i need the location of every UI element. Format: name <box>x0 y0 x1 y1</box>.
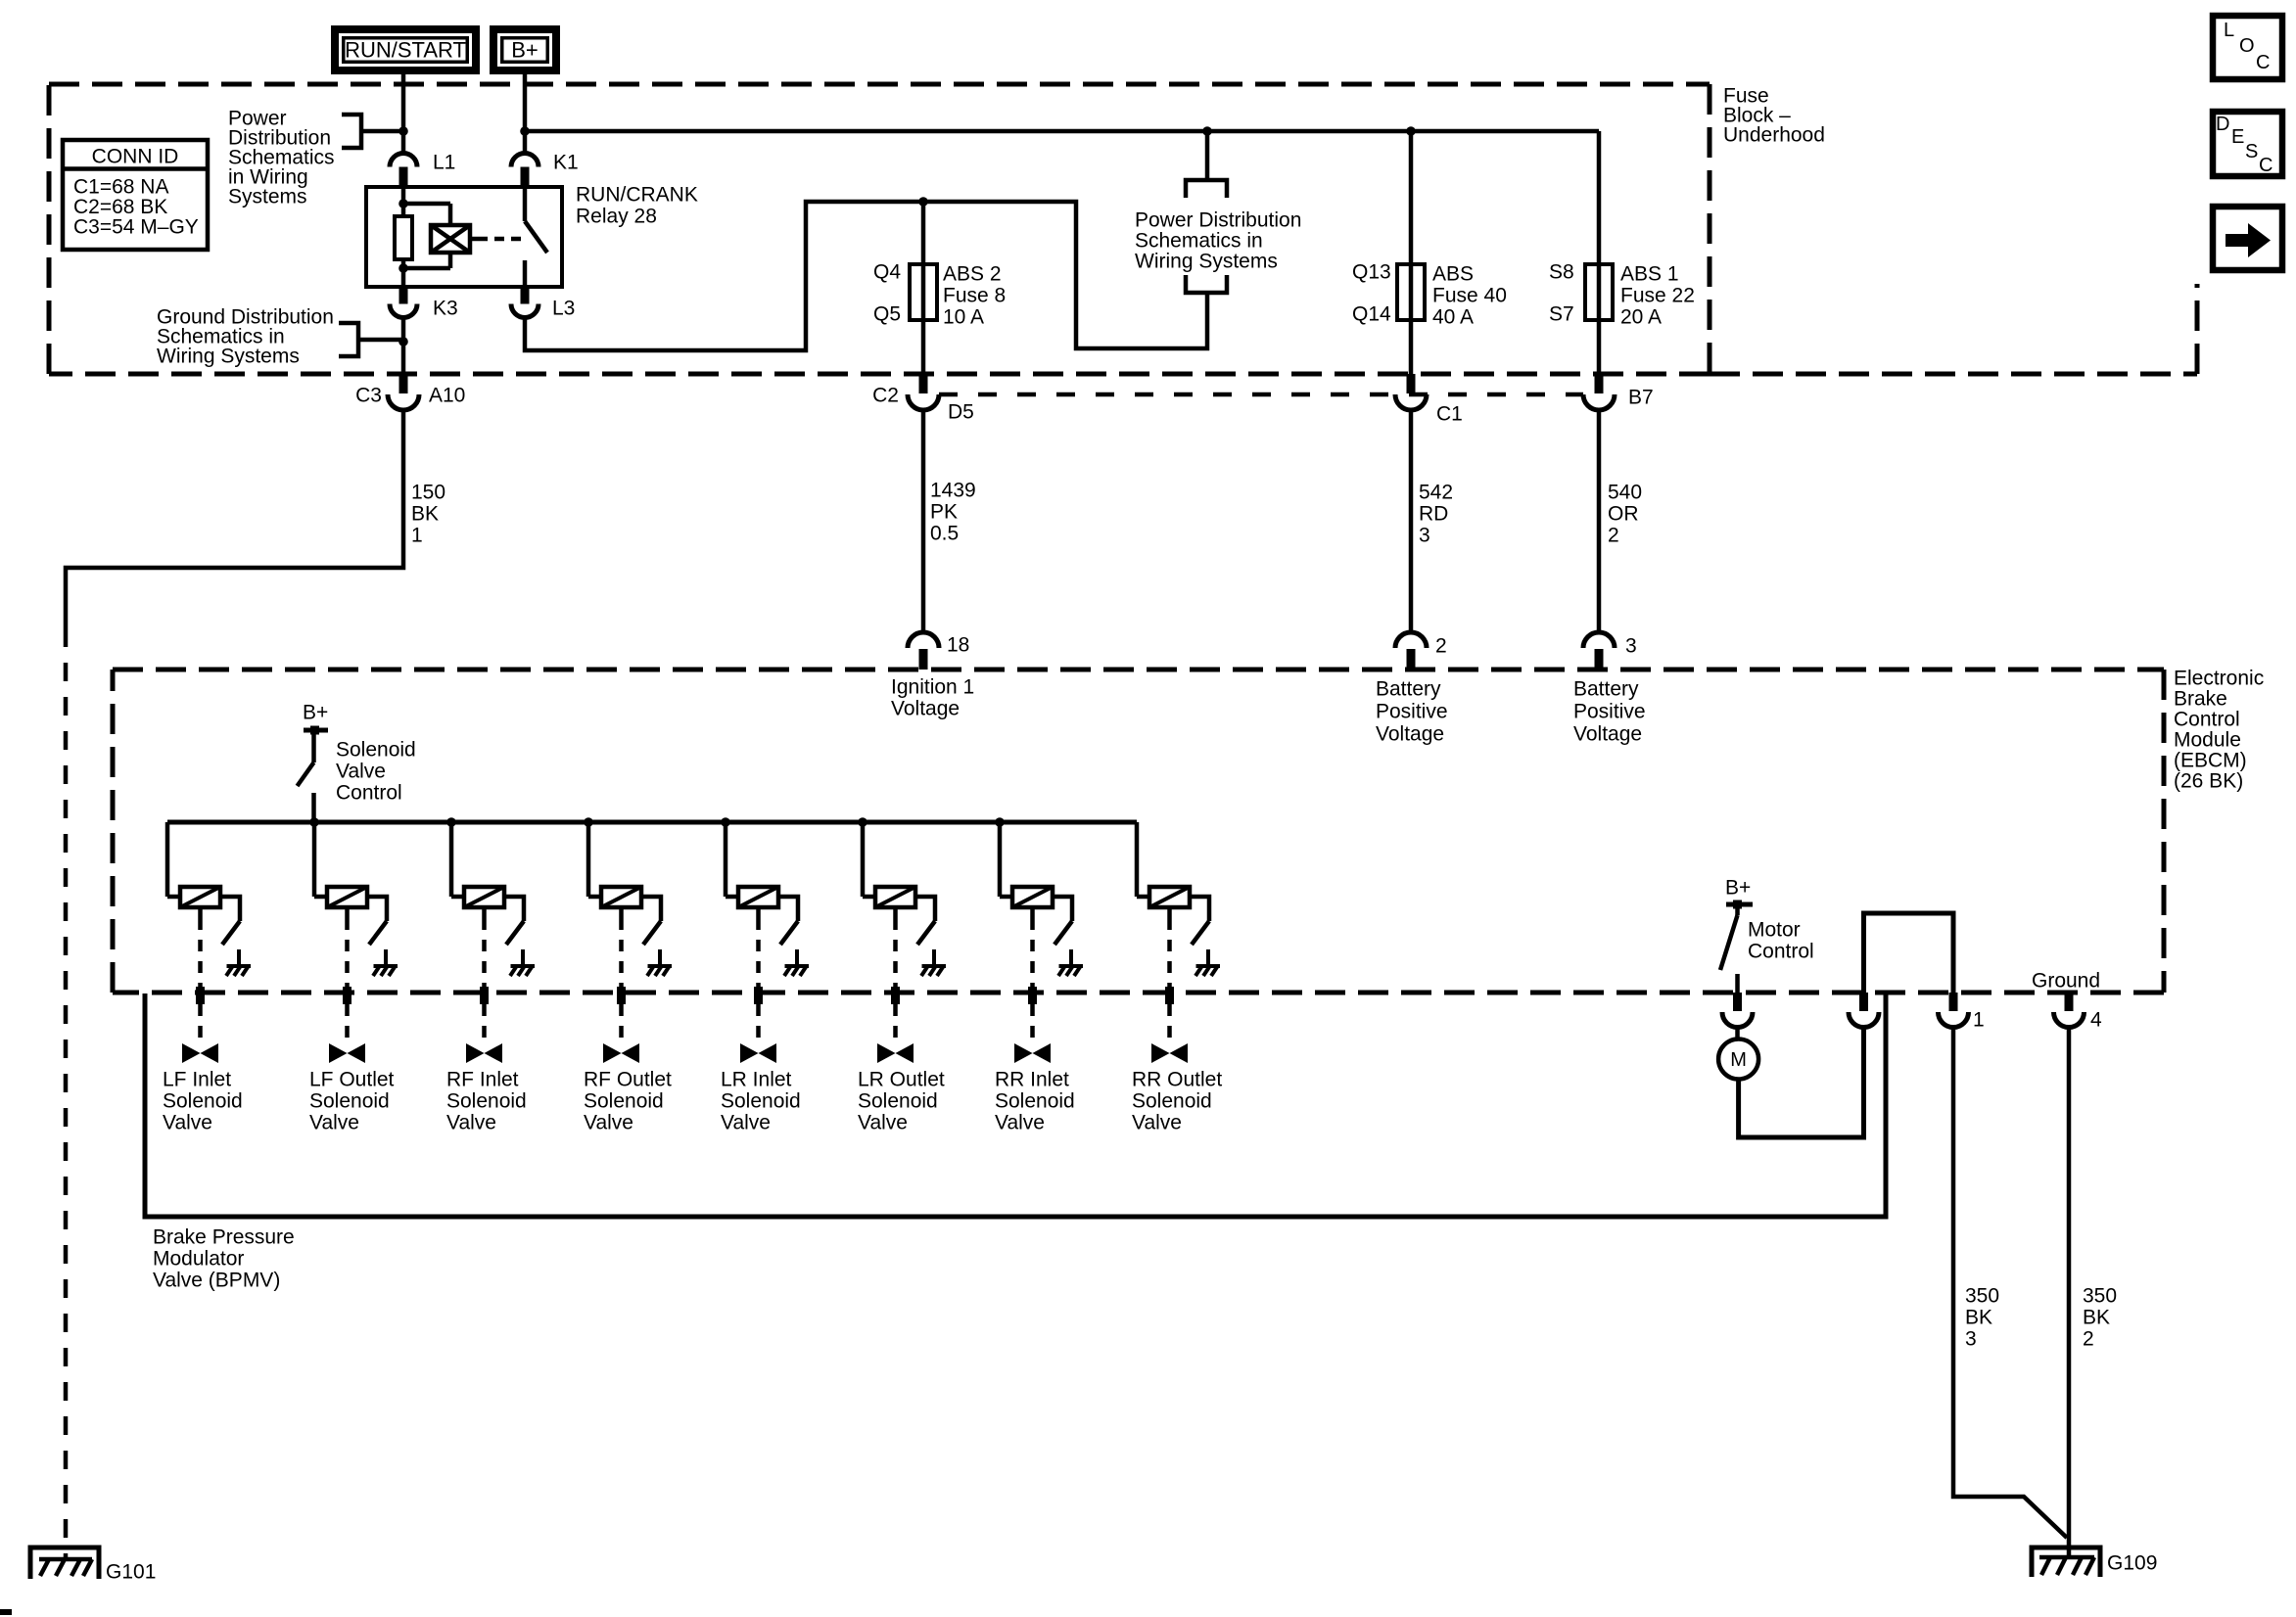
EBCM motor return pin <box>1849 1012 1879 1028</box>
svg-text:Fuse 40: Fuse 40 <box>1432 285 1507 307</box>
bracket ground distribution schematics <box>339 323 358 356</box>
svg-text:2: 2 <box>1608 525 1619 547</box>
svg-text:Positive: Positive <box>1376 701 1448 723</box>
svg-text:RF Inlet: RF Inlet <box>446 1069 519 1091</box>
wire motor return loop <box>1739 1028 1864 1138</box>
connector C1 <box>1407 374 1416 393</box>
node junction ABS2 feed <box>918 197 928 207</box>
valve RF Outlet Solenoid Valve <box>603 1043 622 1063</box>
ground (chassis) LF Inlet driver <box>237 949 241 965</box>
svg-text:LR Outlet: LR Outlet <box>858 1069 945 1091</box>
EBCM pin 1 <box>1949 993 1958 1011</box>
svg-text:Valve: Valve <box>858 1112 908 1134</box>
svg-text:Motor: Motor <box>1748 919 1801 942</box>
solenoid driver switch LF Inlet <box>220 897 240 921</box>
svg-text:Valve: Valve <box>1132 1112 1182 1134</box>
ground G109 <box>2032 1548 2100 1577</box>
solenoid driver bus <box>167 820 1137 825</box>
svg-text:Valve: Valve <box>584 1112 633 1134</box>
relay resistor <box>401 187 406 216</box>
svg-text:3: 3 <box>1965 1328 1977 1351</box>
thin dashed connector line C2-B7 <box>939 393 1583 397</box>
wire 150 BK 1 <box>66 410 403 628</box>
svg-text:Valve: Valve <box>446 1112 496 1134</box>
svg-text:Voltage: Voltage <box>1573 723 1642 746</box>
svg-text:BK: BK <box>1965 1307 1992 1329</box>
EBCM motor control pin <box>1733 993 1742 1011</box>
connector B7 <box>1595 374 1604 393</box>
svg-text:C: C <box>2259 155 2273 176</box>
svg-text:D: D <box>2216 114 2229 135</box>
svg-text:Module: Module <box>2174 729 2241 752</box>
valve RF Inlet Solenoid Valve <box>466 1043 485 1063</box>
svg-text:Solenoid: Solenoid <box>584 1090 664 1113</box>
svg-text:Solenoid: Solenoid <box>858 1090 938 1113</box>
valve LF Outlet Solenoid Valve <box>329 1043 348 1063</box>
svg-text:(26 BK): (26 BK) <box>2174 770 2243 793</box>
valve LR Inlet Solenoid Valve <box>740 1043 759 1063</box>
svg-text:Valve: Valve <box>163 1112 212 1134</box>
solenoid driver LF Inlet <box>165 822 170 897</box>
svg-text:CONN ID: CONN ID <box>92 146 179 168</box>
svg-text:LF Outlet: LF Outlet <box>309 1069 395 1091</box>
page edge mark <box>0 1609 12 1615</box>
svg-text:D5: D5 <box>948 401 974 424</box>
svg-text:Solenoid: Solenoid <box>163 1090 243 1113</box>
ground (chassis) RR Inlet driver <box>1069 949 1073 965</box>
svg-text:RUN/START: RUN/START <box>345 37 466 62</box>
svg-text:C2: C2 <box>872 385 899 407</box>
solenoid driver switch LR Inlet <box>778 897 798 921</box>
svg-text:40 A: 40 A <box>1432 306 1474 329</box>
svg-text:C: C <box>2256 52 2270 73</box>
svg-text:Schematics in: Schematics in <box>1135 230 1263 253</box>
svg-text:BK: BK <box>2083 1307 2110 1329</box>
svg-text:Valve: Valve <box>995 1112 1045 1134</box>
wire 1439 PK 0.5 <box>921 410 926 632</box>
svg-text:Ground: Ground <box>2032 970 2100 993</box>
svg-text:(EBCM): (EBCM) <box>2174 750 2247 772</box>
svg-text:L: L <box>2224 20 2234 41</box>
fuse ABS 1 Fuse 22 20A <box>1597 131 1602 374</box>
svg-text:Control: Control <box>1748 941 1814 963</box>
solenoid driver RF Inlet <box>449 822 454 897</box>
ground (chassis) LF Outlet driver <box>384 949 388 965</box>
svg-text:Solenoid: Solenoid <box>309 1090 390 1113</box>
svg-text:Voltage: Voltage <box>1376 723 1444 746</box>
valve LF Inlet Solenoid Valve <box>182 1043 201 1063</box>
valve RR Outlet Solenoid Valve <box>1151 1043 1170 1063</box>
svg-text:Relay 28: Relay 28 <box>576 206 657 228</box>
wire 542 RD 3 <box>1409 410 1414 632</box>
svg-text:G109: G109 <box>2107 1552 2157 1575</box>
svg-text:RF Outlet: RF Outlet <box>584 1069 672 1091</box>
svg-text:Wiring Systems: Wiring Systems <box>1135 251 1278 273</box>
wire 350 BK 3 <box>1953 1028 2067 1539</box>
svg-text:G101: G101 <box>106 1561 156 1584</box>
solenoid driver LF Outlet <box>312 822 317 897</box>
solenoid driver switch LR Outlet <box>915 897 935 921</box>
svg-text:3: 3 <box>1419 525 1430 547</box>
svg-text:Wiring Systems: Wiring Systems <box>157 346 300 368</box>
connector C2/D5 <box>919 374 928 393</box>
svg-text:Systems: Systems <box>228 186 307 208</box>
svg-text:C1: C1 <box>1436 403 1463 426</box>
svg-text:LR Inlet: LR Inlet <box>721 1069 792 1091</box>
connector pin K1 <box>511 154 539 167</box>
ground G101 <box>30 1548 99 1579</box>
ground (chassis) LR Outlet driver <box>932 949 936 965</box>
arrow continuation box <box>2213 207 2282 270</box>
svg-text:B+: B+ <box>1725 877 1751 900</box>
CONN ID table <box>63 140 208 250</box>
svg-text:1439: 1439 <box>930 480 976 502</box>
svg-text:M: M <box>1730 1049 1747 1071</box>
svg-text:ABS 1: ABS 1 <box>1620 263 1679 286</box>
solenoid driver switch RR Inlet <box>1053 897 1072 921</box>
power label box B+ <box>490 25 560 74</box>
svg-text:Valve: Valve <box>336 761 386 783</box>
svg-text:4: 4 <box>2090 1009 2102 1032</box>
svg-text:20 A: 20 A <box>1620 306 1662 329</box>
svg-text:PK: PK <box>930 501 958 524</box>
solenoid driver RR Outlet <box>1135 822 1140 897</box>
solenoid driver LR Outlet <box>861 822 866 897</box>
wire main B+ horizontal feed <box>525 129 1599 134</box>
relay switch <box>523 187 528 221</box>
svg-text:Battery: Battery <box>1376 678 1441 701</box>
relay coil <box>403 202 450 207</box>
svg-text:K3: K3 <box>433 298 458 320</box>
LOC reference box <box>2213 16 2282 79</box>
svg-text:LF Inlet: LF Inlet <box>163 1069 231 1091</box>
svg-text:1: 1 <box>411 525 423 547</box>
solenoid driver switch RR Outlet <box>1190 897 1209 921</box>
svg-text:Control: Control <box>336 782 402 805</box>
bracket power distribution schematics <box>342 115 361 148</box>
svg-text:Control: Control <box>2174 709 2240 731</box>
svg-text:RD: RD <box>1419 503 1448 526</box>
solenoid driver RF Outlet <box>586 822 591 897</box>
svg-text:S: S <box>2245 141 2258 162</box>
svg-text:350: 350 <box>1965 1285 1999 1308</box>
EBCM dashed outline <box>113 668 2164 672</box>
svg-text:Q5: Q5 <box>873 303 901 326</box>
node junction B+ feed <box>520 126 530 136</box>
BPMV outline <box>145 993 1886 1217</box>
svg-text:Solenoid: Solenoid <box>721 1090 801 1113</box>
svg-text:Solenoid: Solenoid <box>336 739 416 762</box>
relay RUN/CRANK Relay 28 box <box>366 187 562 287</box>
svg-text:O: O <box>2239 35 2255 57</box>
svg-text:RR Inlet: RR Inlet <box>995 1069 1069 1091</box>
svg-text:Positive: Positive <box>1573 701 1646 723</box>
EBCM pin 3 <box>1583 632 1615 648</box>
svg-text:Q4: Q4 <box>873 261 901 284</box>
svg-text:540: 540 <box>1608 482 1642 504</box>
svg-text:18: 18 <box>947 634 969 657</box>
ground (chassis) RR Outlet driver <box>1206 949 1210 965</box>
svg-text:150: 150 <box>411 482 445 504</box>
svg-text:S7: S7 <box>1549 303 1574 326</box>
svg-text:RUN/CRANK: RUN/CRANK <box>576 184 698 207</box>
solenoid driver switch RF Inlet <box>504 897 524 921</box>
svg-text:L1: L1 <box>433 152 455 174</box>
node junction power distribution <box>398 126 408 136</box>
svg-text:350: 350 <box>2083 1285 2117 1308</box>
EBCM pin 2 <box>1395 632 1427 648</box>
svg-text:B+: B+ <box>303 702 328 724</box>
solenoid driver switch RF Outlet <box>641 897 661 921</box>
svg-text:3: 3 <box>1625 635 1637 658</box>
valve RR Inlet Solenoid Valve <box>1014 1043 1033 1063</box>
svg-text:S8: S8 <box>1549 261 1574 284</box>
svg-text:E: E <box>2231 126 2244 148</box>
svg-text:2: 2 <box>1435 635 1447 658</box>
svg-text:Q14: Q14 <box>1352 303 1391 326</box>
svg-text:B+: B+ <box>511 37 539 62</box>
solenoid driver RR Inlet <box>998 822 1003 897</box>
EBCM internal ground link <box>1864 913 1954 993</box>
connector pin L1 <box>390 154 417 167</box>
svg-text:Brake: Brake <box>2174 688 2227 711</box>
svg-text:0.5: 0.5 <box>930 523 959 545</box>
svg-text:Battery: Battery <box>1573 678 1639 701</box>
power label box RUN/START <box>331 25 480 74</box>
svg-text:Brake Pressure: Brake Pressure <box>153 1226 295 1249</box>
svg-text:Solenoid: Solenoid <box>1132 1090 1212 1113</box>
wire 540 OR 2 <box>1597 410 1602 632</box>
wire L3 to ABS2 fuse and power distribution <box>525 202 1207 350</box>
svg-text:Valve: Valve <box>309 1112 359 1134</box>
svg-text:542: 542 <box>1419 482 1453 504</box>
svg-text:A10: A10 <box>429 385 465 407</box>
svg-text:Underhood: Underhood <box>1723 124 1825 147</box>
svg-text:Electronic: Electronic <box>2174 668 2264 690</box>
wire RUN/START down to relay L1 <box>401 74 406 154</box>
svg-text:Fuse 8: Fuse 8 <box>943 285 1006 307</box>
ground (chassis) RF Inlet driver <box>521 949 525 965</box>
continuation dash to arrow box <box>1710 372 2197 377</box>
svg-text:C3: C3 <box>355 385 382 407</box>
svg-text:ABS 2: ABS 2 <box>943 263 1002 286</box>
wire B+ down to relay K1 <box>523 74 528 154</box>
svg-text:Solenoid: Solenoid <box>995 1090 1075 1113</box>
ground (chassis) LR Inlet driver <box>795 949 799 965</box>
connector pin L3 <box>521 287 530 304</box>
ground (chassis) RF Outlet driver <box>658 949 662 965</box>
valve LR Outlet Solenoid Valve <box>877 1043 896 1063</box>
bracket power distribution (middle) <box>1205 131 1210 180</box>
motor pump M <box>1735 1028 1740 1039</box>
svg-text:ABS: ABS <box>1432 263 1474 286</box>
svg-text:Modulator: Modulator <box>153 1248 244 1270</box>
svg-text:Valve (BPMV): Valve (BPMV) <box>153 1270 280 1292</box>
svg-text:OR: OR <box>1608 503 1639 526</box>
svg-text:C3=54 M–GY: C3=54 M–GY <box>73 216 199 239</box>
fuse ABS Fuse 40 40A <box>1409 131 1414 374</box>
relay actuator dashed link <box>470 237 478 242</box>
solenoid driver switch LF Outlet <box>367 897 387 921</box>
svg-text:B7: B7 <box>1628 387 1654 409</box>
svg-text:Valve: Valve <box>721 1112 771 1134</box>
svg-text:Ignition 1: Ignition 1 <box>891 676 974 699</box>
EBCM pin 18 <box>908 632 939 648</box>
wire 350 BK 2 <box>2067 1028 2072 1559</box>
svg-text:K1: K1 <box>553 152 579 174</box>
DESC reference box <box>2213 112 2282 176</box>
solenoid driver LR Inlet <box>724 822 728 897</box>
svg-text:Solenoid: Solenoid <box>446 1090 527 1113</box>
fuse ABS 2 Fuse 8 10A <box>921 202 926 374</box>
svg-text:2: 2 <box>2083 1328 2094 1351</box>
fuse block underhood dashed outline <box>49 82 1710 87</box>
svg-text:1: 1 <box>1973 1009 1985 1032</box>
connector pin K3 <box>399 287 408 304</box>
svg-text:RR Outlet: RR Outlet <box>1132 1069 1222 1091</box>
svg-text:Fuse 22: Fuse 22 <box>1620 285 1695 307</box>
wire K3 to ground distribution <box>401 317 406 374</box>
connector C3/A10 <box>399 374 408 393</box>
svg-text:10 A: 10 A <box>943 306 984 329</box>
svg-text:Voltage: Voltage <box>891 698 960 720</box>
svg-text:Power Distribution: Power Distribution <box>1135 209 1301 232</box>
svg-text:Q13: Q13 <box>1352 261 1391 284</box>
svg-text:BK: BK <box>411 503 439 526</box>
svg-text:L3: L3 <box>552 298 575 320</box>
